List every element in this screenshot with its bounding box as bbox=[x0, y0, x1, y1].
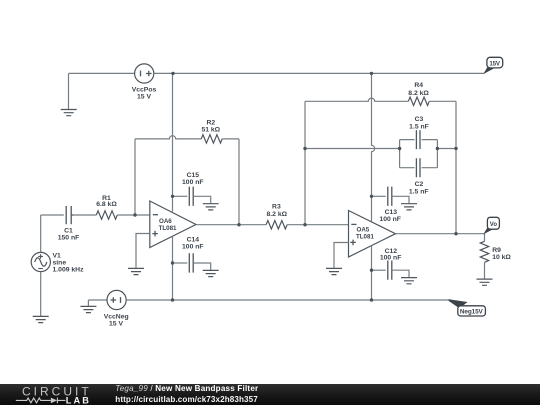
parallel cap box C3 C2 bbox=[400, 140, 438, 168]
voltage source VccNeg bbox=[107, 290, 126, 309]
wire R4 top with hop bbox=[305, 98, 408, 101]
wire C1 to R1 bbox=[74, 214, 97, 216]
resistor R1 bbox=[96, 211, 117, 219]
capacitor C12 bbox=[388, 261, 392, 280]
svg-text:C3: C3 bbox=[415, 116, 424, 123]
node 15V rail B bbox=[370, 72, 373, 75]
bottom bar bbox=[0, 384, 540, 405]
wire input left bbox=[41, 214, 64, 216]
node C15 tap bbox=[171, 195, 174, 198]
wire C13 bbox=[372, 195, 386, 197]
node neg rail A bbox=[171, 298, 174, 301]
svg-text:1.5 nF: 1.5 nF bbox=[409, 188, 429, 195]
wire C3C2 right bbox=[437, 148, 456, 150]
wire rail x=371.5 (15V to OA5 V+) bbox=[372, 73, 375, 221]
svg-text:R4: R4 bbox=[414, 82, 423, 89]
wire top rail right bbox=[154, 72, 484, 74]
svg-text:R3: R3 bbox=[272, 204, 281, 211]
wire C13 to ground bbox=[392, 196, 409, 203]
svg-text:C14: C14 bbox=[187, 237, 200, 244]
node C14 tap bbox=[171, 261, 174, 264]
wire VccNeg rail bbox=[126, 299, 451, 301]
svg-text:Neg15V: Neg15V bbox=[460, 309, 484, 316]
wire top rail left bbox=[69, 72, 135, 74]
node C3C2 left wire bbox=[303, 147, 306, 150]
svg-text:15V: 15V bbox=[489, 60, 501, 67]
wire C3C2 left with hop bbox=[305, 148, 400, 150]
capacitor C2 bbox=[416, 158, 420, 177]
wire OA6 plus input to ground bbox=[136, 234, 150, 269]
node right rail mid bbox=[454, 147, 457, 150]
resistor R9 bbox=[480, 241, 488, 262]
capacitor C15 bbox=[189, 187, 193, 206]
ground C14 bbox=[203, 270, 219, 276]
svg-text:100 nF: 100 nF bbox=[182, 179, 204, 186]
svg-text:51 kΩ: 51 kΩ bbox=[201, 127, 220, 134]
flag Vo bbox=[483, 217, 499, 234]
svg-text:C1: C1 bbox=[64, 227, 73, 234]
svg-text:VccPos: VccPos bbox=[132, 87, 157, 94]
wire right vertical x=239 bbox=[238, 139, 240, 225]
wire C12 bbox=[372, 269, 386, 271]
svg-text:100 nF: 100 nF bbox=[182, 244, 204, 251]
capacitor C3 bbox=[416, 130, 420, 149]
svg-text:C13: C13 bbox=[385, 209, 398, 216]
flag Neg15V bbox=[449, 299, 486, 316]
logo zigzag diode bbox=[16, 398, 66, 404]
capacitor C13 bbox=[388, 187, 392, 206]
svg-text:C15: C15 bbox=[187, 172, 200, 179]
svg-text:100 nF: 100 nF bbox=[380, 255, 402, 262]
svg-text:1.5 nF: 1.5 nF bbox=[409, 123, 429, 130]
wire R9 top bbox=[484, 234, 486, 242]
wire R2 feedback top with hop bbox=[135, 136, 201, 139]
wire OA5 output bbox=[396, 233, 485, 235]
wire C12 to ground bbox=[392, 270, 409, 277]
ground OA6 plus bbox=[128, 268, 144, 274]
node box left bbox=[398, 147, 401, 150]
node OA6 out bbox=[237, 223, 240, 226]
wire rail x=172.5 upper (to OA6 V+) bbox=[172, 73, 174, 211]
ground C12 bbox=[401, 278, 417, 284]
wire R4 right bbox=[429, 100, 456, 102]
svg-text:TL081: TL081 bbox=[159, 225, 177, 232]
capacitor C1 bbox=[66, 206, 73, 224]
svg-text:Tega_99 / New New Bandpass Fil: Tega_99 / New New Bandpass Filter bbox=[115, 384, 259, 393]
ground R9 bbox=[477, 279, 493, 285]
ground C15 bbox=[203, 204, 219, 210]
wire OA6 V- down bbox=[172, 236, 174, 300]
wire C14 to ground bbox=[193, 263, 211, 270]
wire OA6 output bbox=[196, 224, 266, 226]
svg-text:R2: R2 bbox=[206, 119, 215, 126]
wire R9 bottom bbox=[484, 262, 486, 278]
wire V1 top bbox=[40, 215, 42, 252]
wire C14 bbox=[173, 262, 188, 264]
svg-text:R9: R9 bbox=[492, 247, 501, 254]
svg-text:8.2 kΩ: 8.2 kΩ bbox=[267, 211, 288, 218]
ground V1 bbox=[33, 316, 49, 322]
svg-text:8.2 kΩ: 8.2 kΩ bbox=[408, 90, 429, 97]
svg-text:15 V: 15 V bbox=[137, 94, 151, 101]
op-amp OA6 bbox=[150, 201, 196, 248]
node output bbox=[454, 232, 457, 235]
svg-text:VccNeg: VccNeg bbox=[104, 313, 129, 320]
wire R1 to OA6 bbox=[117, 214, 150, 216]
wire C15 to ground bbox=[193, 196, 211, 203]
node 15V rail A bbox=[171, 72, 174, 75]
node neg rail B bbox=[370, 298, 373, 301]
op-amp OA5 bbox=[349, 211, 396, 258]
wire left vertical x=135 bbox=[134, 139, 136, 215]
svg-text:TL081: TL081 bbox=[356, 234, 374, 241]
ground OA5 plus bbox=[326, 268, 342, 274]
wire VccNeg ground stub bbox=[87, 300, 89, 306]
node OA6 minus bbox=[133, 213, 136, 216]
flag 15V bbox=[483, 57, 502, 74]
wire OA5 V- down bbox=[371, 246, 373, 300]
capacitor C14 bbox=[189, 253, 193, 272]
wire R2 right bbox=[222, 138, 239, 140]
ground top-left bbox=[61, 73, 77, 115]
wire C15 bbox=[173, 195, 188, 197]
svg-text:6.8 kΩ: 6.8 kΩ bbox=[96, 201, 117, 208]
wire R3 to OA5 bbox=[287, 224, 348, 226]
svg-text:http://circuitlab.com/ck73x2h8: http://circuitlab.com/ck73x2h83h357 bbox=[115, 395, 258, 404]
voltage source V1 sine bbox=[31, 252, 50, 271]
svg-text:10 kΩ: 10 kΩ bbox=[492, 254, 511, 261]
wire OA5 plus input to ground bbox=[334, 243, 349, 269]
wire right vertical x=456 bbox=[455, 101, 457, 233]
svg-text:OA6: OA6 bbox=[159, 218, 172, 225]
resistor R2 bbox=[201, 135, 222, 143]
node box right bbox=[436, 147, 439, 150]
svg-text:15 V: 15 V bbox=[109, 321, 123, 328]
svg-text:C2: C2 bbox=[415, 181, 424, 188]
resistor R4 bbox=[408, 97, 429, 105]
wire R4 loop left vertical bbox=[304, 101, 306, 224]
wire VccNeg left bbox=[88, 299, 107, 301]
voltage source VccPos bbox=[135, 64, 154, 83]
ground VccNeg bbox=[80, 306, 96, 312]
resistor R3 bbox=[266, 221, 287, 229]
wire V1 bottom bbox=[40, 272, 42, 316]
node C13 tap bbox=[370, 195, 373, 198]
svg-text:1.009 kHz: 1.009 kHz bbox=[53, 267, 85, 274]
node R3 to OA5 bbox=[303, 223, 306, 226]
node C12 tap bbox=[370, 269, 373, 272]
svg-text:sine: sine bbox=[53, 260, 67, 267]
svg-text:Vo: Vo bbox=[490, 222, 498, 228]
svg-text:150 nF: 150 nF bbox=[58, 234, 80, 241]
svg-text:100 nF: 100 nF bbox=[379, 216, 401, 223]
svg-text:LAB: LAB bbox=[66, 395, 91, 405]
ground C13 bbox=[401, 204, 417, 210]
